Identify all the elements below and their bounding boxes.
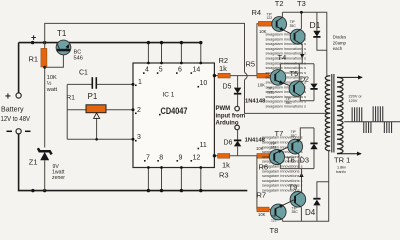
watermark upper block: [266, 33, 307, 109]
resistor R1: [29, 43, 58, 93]
svg-text:14: 14: [193, 67, 201, 74]
svg-text:+: +: [31, 33, 36, 43]
svg-text:Battery: Battery: [1, 105, 24, 114]
diode D3: [300, 128, 318, 169]
node PWM terminal 2: [235, 125, 240, 130]
svg-text:220V or: 220V or: [349, 95, 363, 99]
svg-text:3: 3: [137, 134, 141, 141]
node IC left edge pins 1,2,3: [132, 83, 135, 86]
svg-text:CD4047: CD4047: [161, 106, 188, 117]
svg-text:swagatam innovations s: swagatam innovations s: [266, 47, 307, 51]
wire battery feed top (to transformer center tap): [45, 23, 245, 72]
svg-text:8: 8: [159, 154, 163, 161]
svg-text:35C: 35C: [290, 24, 297, 28]
diode D1: [310, 12, 327, 50]
diode D5 1N4148: [223, 76, 266, 107]
node R1 bottom junction: [43, 66, 46, 69]
wire pin10 output: [214, 75, 218, 77]
svg-text:6: 6: [178, 67, 182, 74]
svg-text:Z1: Z1: [29, 158, 38, 167]
transistor T7 TIP122: [269, 129, 292, 165]
svg-text:12V to 48V: 12V to 48V: [1, 114, 31, 123]
svg-text:1k: 1k: [219, 64, 227, 73]
wire pin3 bottom: [67, 138, 133, 140]
node T3 collector junction: [300, 11, 303, 14]
svg-text:C1: C1: [79, 70, 88, 77]
svg-text:P1: P1: [88, 92, 98, 101]
svg-text:D1: D1: [310, 20, 321, 30]
svg-text:R1: R1: [67, 95, 76, 102]
wire battery minus down to ground rail: [19, 134, 248, 191]
svg-text:PWM: PWM: [216, 106, 231, 112]
wire R3 to R6: [230, 155, 257, 157]
svg-text:1N4148: 1N4148: [245, 99, 265, 105]
svg-text:35C: 35C: [286, 101, 293, 105]
resistor R3: [218, 154, 231, 180]
svg-text:7: 7: [146, 154, 150, 161]
svg-text:1.8kv: 1.8kv: [337, 166, 346, 170]
svg-text:T3: T3: [297, 0, 306, 8]
wire T2 collector to top wire: [281, 12, 283, 17]
svg-text:122: 122: [271, 219, 277, 223]
transformer core: [331, 74, 333, 153]
svg-text:Diodes: Diodes: [333, 35, 346, 40]
IC bottom stubs: [147, 166, 203, 192]
svg-text:swagatam innovations s: swagatam innovations s: [262, 165, 303, 169]
svg-text:T6: T6: [286, 155, 295, 164]
transistor T8 TIP122: [270, 200, 295, 235]
svg-text:R4: R4: [252, 8, 262, 17]
wire top collector rail channel A: [282, 12, 326, 74]
transistor T5 TIP35C: [286, 69, 305, 105]
svg-text:swagatam innovations s: swagatam innovations s: [266, 66, 307, 70]
battery + terminal: [1, 92, 31, 124]
diode D2: [300, 64, 318, 101]
svg-text:12: 12: [193, 154, 201, 161]
resistor R5: [246, 60, 275, 88]
svg-text:swagatam innovations s: swagatam innovations s: [266, 105, 307, 109]
wire bottom collector rail channel B: [282, 151, 328, 221]
svg-text:D6: D6: [224, 139, 233, 146]
IC top stubs: [147, 41, 203, 65]
wire secondary bottom lead arrow: [337, 153, 361, 155]
svg-text:4: 4: [145, 67, 149, 74]
svg-text:D4: D4: [305, 208, 316, 217]
svg-text:1k: 1k: [222, 161, 230, 170]
svg-text:2: 2: [137, 107, 141, 114]
wire T6 emitter bus: [300, 128, 314, 139]
resistor R4: [252, 8, 276, 76]
IC IC1 CD4047 body: [133, 63, 214, 168]
capacitor C1: [67, 70, 133, 89]
svg-text:D5: D5: [223, 84, 232, 91]
resistor R6: [256, 146, 273, 172]
wire channel A lower rail: [280, 63, 314, 65]
transistor T1: [56, 29, 83, 62]
transistor T2 TIP122: [267, 0, 295, 35]
svg-text:D3: D3: [300, 155, 310, 164]
svg-text:½: ½: [47, 80, 52, 87]
svg-text:tranfo: tranfo: [336, 170, 346, 174]
svg-text:10K: 10K: [258, 83, 266, 88]
wire top positive rail: [19, 42, 201, 44]
transformer TR1 secondary winding: [337, 77, 343, 153]
svg-text:546: 546: [74, 56, 83, 62]
svg-text:swagatam innovations s: swagatam innovations s: [262, 174, 303, 178]
potentiometer P1: [67, 92, 133, 139]
svg-text:T4: T4: [278, 53, 287, 62]
transistor T9 TIP35C: [289, 182, 306, 214]
wire T3 collector up: [300, 12, 302, 29]
resistor R2: [218, 56, 230, 78]
svg-text:T7: T7: [275, 129, 284, 138]
IC pin labels: [137, 67, 207, 162]
transistor T3 TIP35C: [290, 0, 306, 45]
svg-text:122: 122: [267, 90, 273, 94]
wire T3 emitter down with arrow: [301, 45, 303, 58]
svg-text:swagatam innovations s: swagatam innovations s: [262, 169, 303, 173]
wire P1 box left vertical: [66, 84, 68, 139]
wire pin11 output: [214, 155, 217, 157]
wire T5 emitter bus: [300, 96, 314, 101]
svg-text:T9: T9: [289, 182, 298, 191]
resistor R7: [257, 156, 275, 217]
node PWM input terminal: [235, 106, 240, 111]
svg-text:10: 10: [200, 80, 208, 87]
node ground dots: [31, 189, 34, 192]
svg-text:T8: T8: [270, 226, 279, 233]
watermark lower block: [262, 136, 303, 193]
wire battery plus up to rail: [18, 43, 20, 93]
svg-text:11: 11: [200, 142, 207, 149]
wire base tap to T1: [45, 52, 64, 67]
wire R2 to R5: [230, 75, 257, 77]
svg-text:122: 122: [271, 146, 277, 150]
svg-text:35C: 35C: [291, 134, 298, 138]
svg-text:TR 1: TR 1: [334, 156, 350, 165]
svg-text:10K: 10K: [258, 212, 266, 217]
svg-text:zener: zener: [52, 175, 65, 181]
diode D6 1N4148: [224, 130, 265, 156]
battery - terminal: [7, 129, 31, 134]
svg-text:9: 9: [179, 154, 183, 161]
svg-text:T1: T1: [57, 29, 67, 38]
transformer TR1 primary winding: [325, 76, 330, 151]
node rail R1 junction: [31, 41, 34, 44]
wire secondary top lead arrow: [337, 76, 362, 78]
diode D4: [305, 182, 329, 222]
svg-text:input from: input from: [216, 114, 246, 120]
svg-text:R3: R3: [219, 171, 229, 180]
svg-text:T2: T2: [275, 0, 284, 8]
wire channel B rail: [280, 168, 314, 170]
svg-text:watt: watt: [46, 87, 58, 93]
svg-text:20amp: 20amp: [333, 40, 347, 45]
wire T9 emitter column with up arrow: [301, 173, 303, 192]
svg-text:R5: R5: [246, 60, 256, 69]
svg-text:35C: 35C: [292, 210, 299, 214]
wire R1 bottom to zener column: [44, 67, 46, 148]
svg-text:D2: D2: [300, 76, 309, 83]
svg-text:each: each: [333, 46, 343, 51]
svg-text:122: 122: [267, 16, 273, 20]
zener Z1: [29, 148, 65, 190]
svg-text:T5: T5: [290, 69, 299, 78]
svg-text:+: +: [5, 92, 11, 103]
SPWM waveform: [344, 106, 400, 133]
transistor T6 TIP35C: [286, 130, 303, 164]
svg-text:120V: 120V: [349, 99, 358, 103]
transistor T4 TIP122: [267, 53, 294, 94]
svg-text:R1: R1: [29, 55, 39, 64]
wire hop over pin10 wire: [245, 72, 248, 80]
svg-text:IC 1: IC 1: [163, 92, 175, 99]
svg-text:5: 5: [159, 67, 163, 74]
svg-text:1: 1: [138, 79, 142, 86]
